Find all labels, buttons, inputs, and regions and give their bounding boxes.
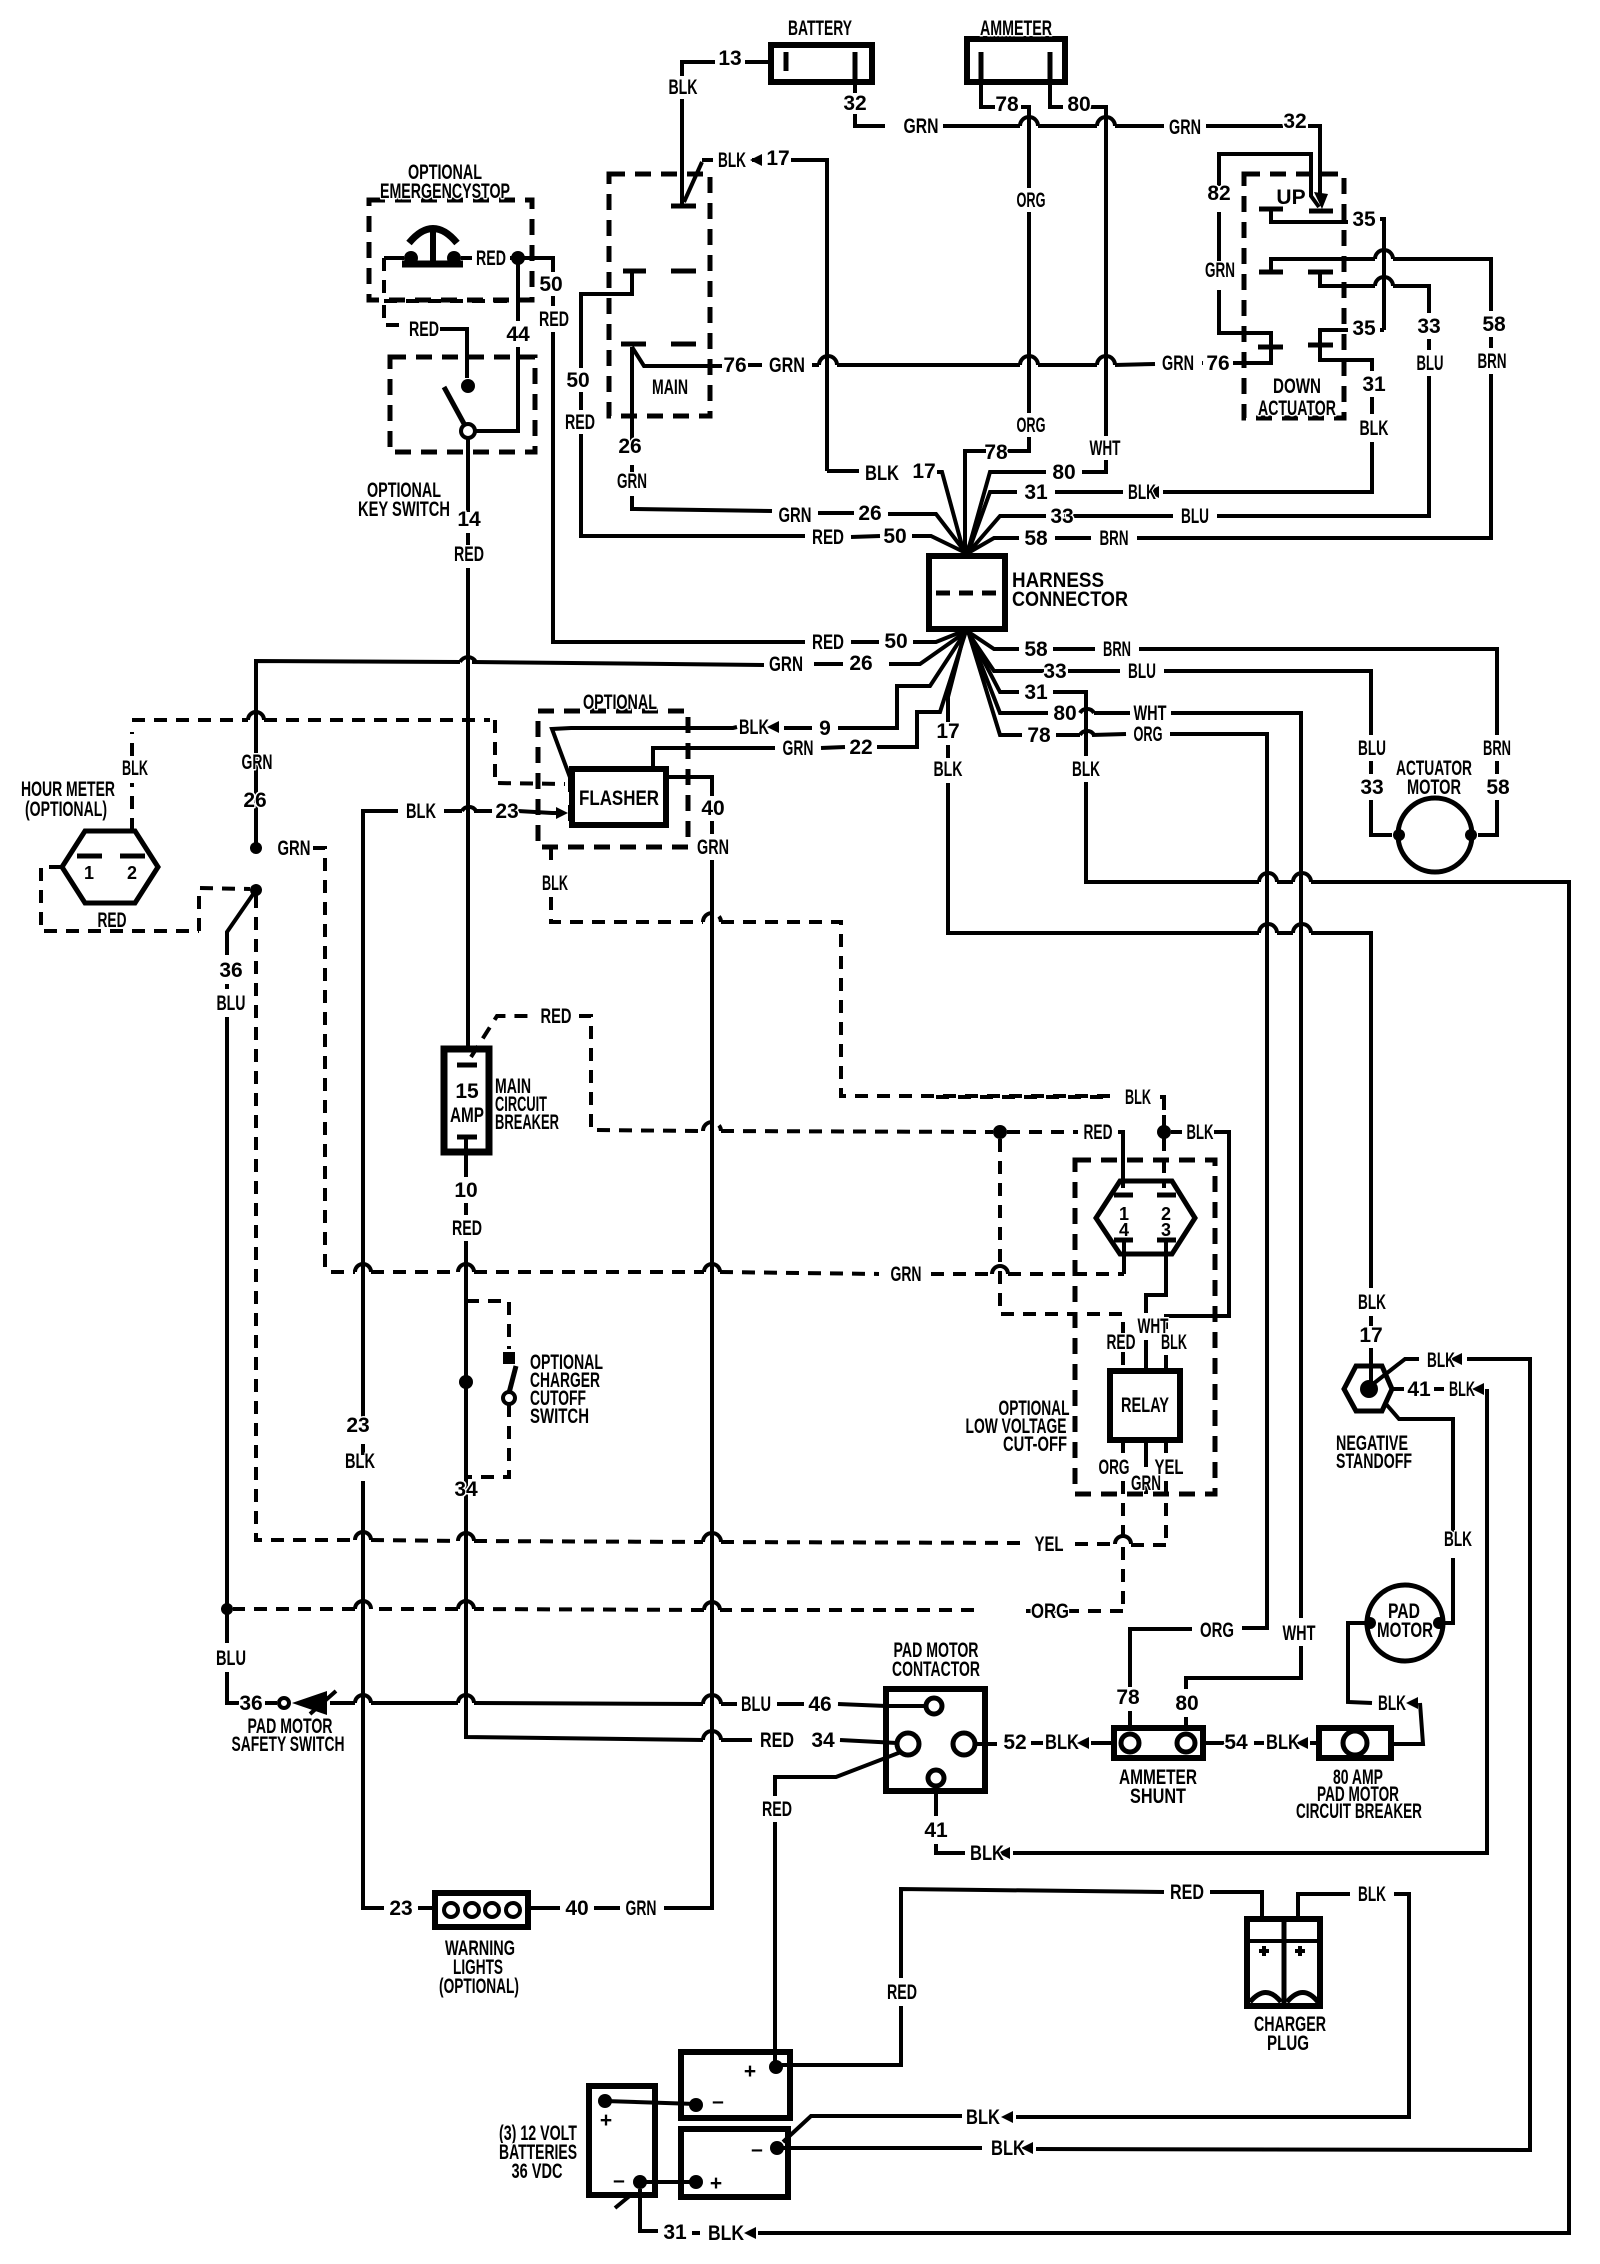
svg-text:36: 36 <box>219 959 242 982</box>
svg-text:15: 15 <box>455 1080 479 1103</box>
svg-text:BLU: BLU <box>1417 352 1444 375</box>
node diamond junction <box>993 1125 1007 1139</box>
charger plug P1 <box>1247 1919 1326 2055</box>
svg-text:GRN: GRN <box>626 1897 657 1920</box>
wire WHT pin3 to relay <box>1138 1240 1169 1371</box>
svg-text:GRN: GRN <box>697 836 729 859</box>
svg-text:CONTACTOR: CONTACTOR <box>892 1658 980 1681</box>
wire 13 BLK battery to main contactor <box>669 47 772 206</box>
relay bottom leads ORG GRN YEL <box>1099 1440 1184 1611</box>
wire 31 BLK harness bottom long run to batteries <box>640 631 1569 2245</box>
wire 17 BLK harness to negative standoff <box>934 631 1387 1382</box>
wire BLK negative standoff to pad motor <box>1386 1404 1472 1623</box>
svg-text:33: 33 <box>1050 505 1073 528</box>
svg-text:BLK: BLK <box>1045 1731 1079 1754</box>
main contactor contact row2 <box>623 269 696 274</box>
svg-text:RED: RED <box>762 1798 792 1821</box>
relay K2 <box>1110 1371 1180 1440</box>
svg-text:23: 23 <box>346 1414 369 1437</box>
svg-text:CIRCUIT BREAKER: CIRCUIT BREAKER <box>1296 1800 1422 1823</box>
wire 58 BRN row2 to harness and actuator motor <box>968 250 1507 553</box>
svg-text:MOTOR: MOTOR <box>1407 776 1461 799</box>
low voltage cutoff dashed box <box>966 1160 1216 1494</box>
wire 33 BLU row2 to harness <box>968 272 1444 553</box>
svg-text:AMP: AMP <box>450 1104 484 1127</box>
svg-text:BLK: BLK <box>718 149 746 172</box>
svg-text:BLU: BLU <box>1358 737 1386 760</box>
node junction dot breaker wire <box>459 1375 473 1389</box>
svg-text:DOWN: DOWN <box>1273 375 1321 398</box>
svg-text:2: 2 <box>127 863 137 883</box>
svg-text:BRN: BRN <box>1100 527 1129 550</box>
svg-text:ACTUATOR: ACTUATOR <box>1258 397 1336 420</box>
svg-text:MAIN: MAIN <box>652 376 688 399</box>
svg-text:PLUG: PLUG <box>1267 2032 1309 2055</box>
pad motor safety switch S4 <box>232 1691 345 1756</box>
svg-text:BLK: BLK <box>934 758 963 781</box>
wire 76 GRN main contactor to down actuator <box>632 347 1271 377</box>
svg-text:26: 26 <box>243 789 266 812</box>
svg-text:80: 80 <box>1053 702 1076 725</box>
svg-text:–: – <box>613 2169 625 2192</box>
svg-text:BLK: BLK <box>1125 1086 1151 1109</box>
svg-text:RELAY: RELAY <box>1121 1394 1169 1417</box>
pad motor M4 <box>1364 1585 1445 1661</box>
svg-text:41: 41 <box>924 1819 948 1842</box>
svg-text:SHUNT: SHUNT <box>1130 1785 1186 1808</box>
wire 23 BLK flasher to warning lights <box>345 800 568 1920</box>
svg-text:RED: RED <box>541 1005 572 1028</box>
svg-text:RED: RED <box>98 909 127 932</box>
svg-text:GRN: GRN <box>769 653 803 676</box>
svg-text:RED: RED <box>539 308 569 331</box>
wire 32 GRN battery to up actuator <box>843 82 1328 209</box>
svg-text:78: 78 <box>995 93 1019 116</box>
svg-text:YEL: YEL <box>1035 1533 1064 1556</box>
flasher dashed box <box>538 691 688 847</box>
svg-text:GRN: GRN <box>1162 352 1194 375</box>
wire BLK pad motor to 80 amp breaker <box>1348 1623 1423 1744</box>
svg-text:BLU: BLU <box>1128 660 1156 683</box>
svg-text:GRN: GRN <box>1131 1472 1161 1495</box>
wire RED dashed relay left pin <box>1000 1139 1136 1371</box>
wire 33 BLU harness bottom to actuator motor <box>967 631 1392 835</box>
svg-text:78: 78 <box>984 441 1008 464</box>
wire 80 WHT ammeter to harness top <box>967 82 1121 554</box>
svg-text:BRN: BRN <box>1483 737 1511 760</box>
svg-text:RED: RED <box>887 1981 917 2004</box>
svg-text:+: + <box>710 2172 722 2195</box>
svg-text:9: 9 <box>819 717 831 740</box>
svg-text:ORG: ORG <box>1031 1600 1069 1623</box>
svg-text:CUT-OFF: CUT-OFF <box>1003 1433 1067 1456</box>
wire 9 BLK harness to flasher <box>552 631 966 780</box>
charger cutoff switch S3 <box>466 1301 603 1477</box>
flasher dashed BLK wire to relay area <box>542 847 1164 1126</box>
wire 82 GRN down actuator <box>1205 154 1319 347</box>
svg-text:GRN: GRN <box>1205 259 1235 282</box>
svg-text:GRN: GRN <box>904 115 939 138</box>
svg-text:23: 23 <box>389 1897 412 1920</box>
wire ORG dashed long run left to node 36 <box>233 1600 1123 1623</box>
svg-text:BLK: BLK <box>406 800 436 823</box>
wire 31 BLK row3 to harness <box>968 345 1389 553</box>
svg-text:BLK: BLK <box>1449 1378 1475 1401</box>
svg-text:BLK: BLK <box>991 2137 1025 2160</box>
svg-text:GRN: GRN <box>769 354 805 377</box>
svg-text:36 VDC: 36 VDC <box>512 2160 563 2183</box>
emergency stop inner dashed body <box>384 258 519 325</box>
wire GRN dashed to low voltage cutoff pin 4 <box>331 1263 1124 1286</box>
svg-text:BATTERY: BATTERY <box>788 17 852 40</box>
wire 78 ORG ammeter to harness top <box>965 82 1046 554</box>
wire RED contactor to battery positive <box>762 1752 901 2062</box>
flasher FL1 <box>571 769 666 825</box>
down actuator contacts row2 <box>1259 270 1333 275</box>
svg-text:GRN: GRN <box>891 1263 922 1286</box>
svg-text:76: 76 <box>1206 352 1229 375</box>
svg-text:ORG: ORG <box>1200 1619 1234 1642</box>
svg-text:32: 32 <box>843 92 866 115</box>
wire YEL dashed long run left <box>256 895 1166 1556</box>
svg-text:GRN: GRN <box>278 837 311 860</box>
svg-text:OPTIONAL: OPTIONAL <box>583 691 657 714</box>
wire RED dashed to hexagon pin1 <box>1121 1138 1125 1188</box>
svg-text:GRN: GRN <box>1169 116 1201 139</box>
wire pin4 stub <box>1122 1240 1126 1274</box>
svg-text:CONNECTOR: CONNECTOR <box>1012 588 1128 611</box>
battery BT2 bottom right <box>681 2129 788 2197</box>
svg-text:46: 46 <box>808 1693 831 1716</box>
svg-text:BLK: BLK <box>1444 1528 1472 1551</box>
svg-text:33: 33 <box>1043 660 1066 683</box>
actuator motor M2 <box>1393 757 1477 872</box>
svg-text:58: 58 <box>1482 313 1506 336</box>
svg-text:BLK: BLK <box>970 1842 1004 1865</box>
svg-text:WHT: WHT <box>1283 1622 1316 1645</box>
svg-text:80: 80 <box>1175 1692 1198 1715</box>
low voltage cutoff hexagon plug <box>1096 1181 1195 1254</box>
wire BLK relay feed <box>1161 1121 1229 1371</box>
svg-text:BLK: BLK <box>1266 1731 1300 1754</box>
svg-text:RED: RED <box>1107 1331 1136 1354</box>
svg-text:58: 58 <box>1024 638 1048 661</box>
svg-text:58: 58 <box>1486 776 1510 799</box>
svg-text:ORG: ORG <box>1099 1456 1130 1479</box>
svg-text:35: 35 <box>1352 208 1376 231</box>
wire 40 GRN flasher to warning lights <box>528 777 729 1920</box>
wire BLK negative standoff to charger plug run <box>783 1349 1530 2160</box>
svg-text:13: 13 <box>718 47 741 70</box>
battery B1 <box>771 17 872 82</box>
ammeter shunt R1 <box>1114 1728 1203 1808</box>
wire 35 row1 to node <box>1271 208 1384 330</box>
svg-text:33: 33 <box>1417 315 1440 338</box>
svg-text:50: 50 <box>884 630 907 653</box>
svg-text:BLK: BLK <box>1427 1349 1455 1372</box>
svg-text:36: 36 <box>239 1692 262 1715</box>
svg-text:52: 52 <box>1003 1731 1026 1754</box>
svg-text:14: 14 <box>457 508 481 531</box>
wire BLK 17 main contactor to harness <box>702 147 964 553</box>
svg-text:BLK: BLK <box>542 872 568 895</box>
hour meter dashed RED wire <box>41 867 250 932</box>
warning lights DS1 <box>435 1893 528 1998</box>
svg-text:26: 26 <box>849 652 872 675</box>
wire RED dashed breaker to low voltage cutoff <box>471 1005 1123 1188</box>
svg-text:RED: RED <box>476 247 506 270</box>
wire 80 WHT harness bottom to ammeter shunt <box>968 631 1316 1728</box>
svg-text:KEY SWITCH: KEY SWITCH <box>358 498 450 521</box>
svg-text:78: 78 <box>1027 724 1051 747</box>
svg-text:EMERGENCYSTOP: EMERGENCYSTOP <box>380 180 510 203</box>
wire 10 RED breaker down <box>452 1137 897 1752</box>
svg-text:SWITCH: SWITCH <box>530 1405 589 1428</box>
svg-text:RED: RED <box>812 526 844 549</box>
svg-text:SAFETY SWITCH: SAFETY SWITCH <box>232 1733 345 1756</box>
node junction dot RED/44 <box>511 251 525 265</box>
svg-text:33: 33 <box>1360 776 1383 799</box>
svg-text:BLK: BLK <box>1360 417 1389 440</box>
wire 54 BLK breaker to shunt <box>1203 1731 1319 1754</box>
svg-text:34: 34 <box>454 1478 478 1501</box>
wire 26 GRN harness bottom to left <box>242 631 968 843</box>
svg-text:17: 17 <box>936 720 959 743</box>
80 amp pad motor circuit breaker CB2 <box>1296 1728 1422 1823</box>
svg-text:WHT: WHT <box>1090 437 1121 460</box>
wire 41 BLK negative standoff to pad motor contactor <box>924 1378 1487 1865</box>
svg-text:BLK: BLK <box>739 716 769 739</box>
svg-text:50: 50 <box>883 525 906 548</box>
svg-text:RED: RED <box>1170 1881 1204 1904</box>
svg-text:34: 34 <box>811 1729 835 1752</box>
svg-text:RED: RED <box>1084 1121 1113 1144</box>
main contactor coil contact top <box>671 162 702 206</box>
svg-text:31: 31 <box>663 2221 687 2244</box>
svg-text:AMMETER: AMMETER <box>980 17 1052 40</box>
svg-text:50: 50 <box>539 273 562 296</box>
wire RED emergency stop to node 50 <box>461 247 966 654</box>
svg-text:3: 3 <box>1161 1220 1171 1240</box>
svg-text:BLK: BLK <box>1378 1692 1406 1715</box>
svg-text:RED: RED <box>409 318 439 341</box>
wire BLK dashed to hexagon pin2 <box>1162 1138 1166 1188</box>
wire battery series links <box>605 2101 696 2182</box>
svg-text:BLK: BLK <box>865 462 899 485</box>
main circuit breaker CB1 <box>444 1049 559 1152</box>
svg-text:RED: RED <box>812 631 844 654</box>
svg-text:17: 17 <box>1359 1324 1382 1347</box>
svg-text:4: 4 <box>1119 1220 1129 1240</box>
svg-text:26: 26 <box>858 502 881 525</box>
pad motor contactor K3 <box>886 1639 985 1791</box>
svg-text:BLK: BLK <box>345 1450 375 1473</box>
svg-text:BLU: BLU <box>216 1647 246 1670</box>
svg-text:BLU: BLU <box>1181 505 1209 528</box>
up actuator moving contact <box>1309 209 1333 214</box>
svg-text:BLK: BLK <box>1358 1291 1386 1314</box>
svg-text:31: 31 <box>1362 373 1386 396</box>
svg-text:1: 1 <box>84 863 94 883</box>
key switch contact and blade <box>444 379 518 438</box>
wire RED battery positive to charger plug <box>782 1881 1262 2065</box>
svg-text:GRN: GRN <box>779 504 812 527</box>
svg-text:31: 31 <box>1024 681 1048 704</box>
svg-text:22: 22 <box>849 736 872 759</box>
battery BT1 top right <box>681 2052 790 2118</box>
battery BT3 left <box>499 2086 655 2208</box>
svg-text:40: 40 <box>565 1897 588 1920</box>
svg-text:FLASHER: FLASHER <box>579 787 659 810</box>
svg-text:–: – <box>751 2138 763 2161</box>
svg-text:MOTOR: MOTOR <box>1377 1619 1433 1642</box>
wire 52 BLK contactor to shunt <box>975 1731 1114 1754</box>
svg-text:31: 31 <box>1024 481 1048 504</box>
svg-text:80: 80 <box>1052 461 1075 484</box>
svg-text:26: 26 <box>618 435 641 458</box>
svg-text:BLK: BLK <box>966 2106 1000 2129</box>
svg-text:(OPTIONAL): (OPTIONAL) <box>439 1975 519 1998</box>
wire 44 emergency stop to key switch <box>476 264 530 431</box>
svg-text:50: 50 <box>566 369 589 392</box>
svg-text:–: – <box>712 2090 724 2113</box>
ammeter M1 <box>967 17 1065 82</box>
svg-text:GRN: GRN <box>783 737 814 760</box>
main contactor K1 dashed box <box>609 174 710 416</box>
wire 50 RED main contactor to harness top <box>565 271 966 553</box>
svg-text:GRN: GRN <box>617 470 647 493</box>
svg-text:76: 76 <box>723 354 746 377</box>
svg-text:32: 32 <box>1283 110 1306 133</box>
svg-text:BRN: BRN <box>1478 350 1507 373</box>
wire 35 node row3 <box>1320 317 1384 345</box>
svg-text:BLU: BLU <box>217 992 246 1015</box>
wire 14 RED key switch to main circuit breaker <box>454 438 484 1049</box>
svg-text:(OPTIONAL): (OPTIONAL) <box>25 798 107 821</box>
node GRN junction dot <box>250 837 325 1272</box>
svg-text:BLK: BLK <box>1187 1121 1214 1144</box>
svg-text:17: 17 <box>766 147 789 170</box>
down actuator contacts row3 <box>1258 345 1333 347</box>
svg-text:40: 40 <box>701 797 724 820</box>
svg-text:WHT: WHT <box>1134 702 1167 725</box>
harness connector J1 <box>929 556 1128 629</box>
node junction dot ORG/BLU <box>221 1603 233 1615</box>
svg-text:RED: RED <box>565 411 595 434</box>
hour meter M3 hexagon <box>21 778 158 903</box>
svg-text:BLK: BLK <box>708 2222 744 2245</box>
svg-text:BREAKER: BREAKER <box>495 1111 559 1134</box>
up actuator fixed contact row1 <box>1259 207 1283 212</box>
svg-text:ORG: ORG <box>1134 723 1163 746</box>
svg-text:BLK: BLK <box>669 76 698 99</box>
down actuator dashed box <box>1244 174 1344 420</box>
negative standoff hexagon <box>1336 1366 1412 1473</box>
wire BLK dashed top of low voltage cutoff <box>936 1097 1164 1126</box>
emergency stop mushroom button <box>389 229 463 266</box>
svg-text:BLU: BLU <box>741 1693 771 1716</box>
svg-text:80: 80 <box>1067 93 1090 116</box>
svg-text:BLK: BLK <box>1072 758 1100 781</box>
wire 58 BRN harness bottom to actuator motor <box>967 631 1511 835</box>
node junction dot 36 <box>250 884 262 896</box>
svg-text:58: 58 <box>1024 527 1048 550</box>
wire 22 GRN harness to flasher <box>653 631 966 769</box>
svg-text:UP: UP <box>1276 186 1305 209</box>
node junction dot BLK <box>1157 1125 1171 1139</box>
key switch S2 dashed box <box>358 357 535 521</box>
svg-text:BLK: BLK <box>122 757 148 780</box>
svg-text:54: 54 <box>1224 1731 1248 1754</box>
svg-text:78: 78 <box>1116 1686 1140 1709</box>
svg-text:GRN: GRN <box>242 751 273 774</box>
main contactor contact row3 <box>621 342 696 347</box>
svg-text:41: 41 <box>1407 1378 1431 1401</box>
svg-text:ORG: ORG <box>1017 414 1046 437</box>
wire 78 ORG harness bottom to ammeter shunt <box>968 631 1267 1728</box>
wire BLK charger plug negative <box>783 1883 1409 2142</box>
wire 46 BLU safety switch to contactor <box>330 1693 926 1716</box>
svg-text:WHT: WHT <box>1138 1315 1169 1338</box>
wire 36 BLU to pad motor safety switch <box>216 890 277 1715</box>
svg-text:BLK: BLK <box>1128 481 1156 504</box>
svg-text:BLK: BLK <box>1358 1883 1386 1906</box>
svg-text:+: + <box>744 2060 756 2083</box>
wire RED to key switch contact <box>409 318 467 378</box>
hour meter dashed BLK wire <box>122 712 565 831</box>
svg-text:44: 44 <box>506 323 530 346</box>
svg-text:35: 35 <box>1352 317 1376 340</box>
svg-text:BRN: BRN <box>1103 638 1131 661</box>
svg-text:23: 23 <box>495 800 518 823</box>
emergency stop S1 dashed box <box>369 161 532 300</box>
svg-text:STANDOFF: STANDOFF <box>1336 1450 1412 1473</box>
svg-text:RED: RED <box>760 1729 794 1752</box>
svg-text:ORG: ORG <box>1017 189 1046 212</box>
svg-text:RED: RED <box>454 543 484 566</box>
svg-text:17: 17 <box>912 460 935 483</box>
svg-text:82: 82 <box>1207 182 1230 205</box>
svg-text:10: 10 <box>454 1179 477 1202</box>
svg-text:RED: RED <box>452 1217 482 1240</box>
svg-text:+: + <box>600 2109 612 2132</box>
wire 26 GRN main contactor to harness top <box>617 347 966 553</box>
